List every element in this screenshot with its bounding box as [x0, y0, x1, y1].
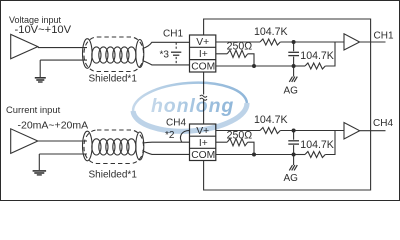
svg-text:104.7K: 104.7K — [300, 50, 334, 62]
svg-text:-10V~+10V: -10V~+10V — [15, 24, 72, 36]
svg-text:-20mA~+20mA: -20mA~+20mA — [18, 120, 89, 132]
svg-text:*3: *3 — [160, 49, 170, 60]
svg-text:I+: I+ — [199, 49, 208, 60]
svg-text:CH1: CH1 — [374, 31, 394, 42]
svg-text:AG: AG — [284, 86, 299, 97]
svg-text:COM: COM — [191, 62, 215, 73]
svg-text:CH4: CH4 — [373, 118, 393, 129]
svg-text:AG: AG — [284, 173, 299, 184]
svg-text:V+: V+ — [196, 37, 209, 48]
svg-text:I+: I+ — [199, 138, 208, 149]
svg-text:CH1: CH1 — [163, 28, 183, 39]
svg-text:250Ω: 250Ω — [227, 130, 253, 142]
svg-text:Shielded*1: Shielded*1 — [89, 74, 138, 85]
svg-text:Shielded*1: Shielded*1 — [89, 170, 138, 181]
svg-text:COM: COM — [191, 150, 215, 161]
svg-text:104.7K: 104.7K — [300, 139, 334, 151]
svg-text:honlong: honlong — [151, 95, 234, 117]
svg-text:250Ω: 250Ω — [227, 41, 253, 53]
svg-text:104.7K: 104.7K — [254, 114, 288, 126]
svg-text:104.7K: 104.7K — [254, 26, 288, 38]
svg-text:CH4: CH4 — [166, 118, 186, 129]
svg-text:Current input: Current input — [6, 104, 61, 115]
